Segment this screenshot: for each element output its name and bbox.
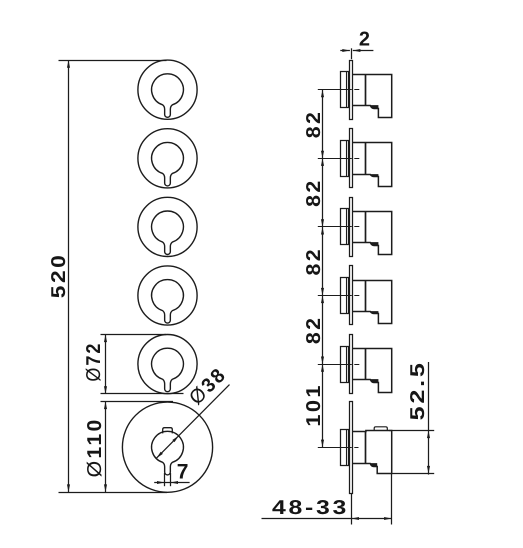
arrowhead diam38 upper-right	[172, 436, 178, 442]
valve 2 wall plate (2 mm)	[350, 129, 353, 188]
dimension line 520	[68, 60, 70, 492]
valve 1 handle profile	[353, 75, 392, 118]
arrowhead diam72 top	[104, 335, 107, 343]
knob 5 escutcheon circle (diam 72)	[138, 335, 197, 394]
valve 2 lever fillet wedge	[370, 174, 378, 176]
thermostat body inner edge	[346, 430, 348, 466]
knob 2 handle keyhole (diam 38)	[152, 142, 184, 185]
knob 3 handle keyhole (diam 38)	[152, 211, 184, 254]
extension line plate top	[351, 48, 353, 59]
arrowhead 48-33 left	[351, 517, 359, 520]
svg-text:2: 2	[359, 28, 372, 50]
arrowhead 7 left	[157, 481, 165, 484]
side view thermostat: rough-in body	[341, 430, 349, 466]
arrowhead diam38 lower-left	[156, 452, 162, 458]
extension line stem right	[170, 473, 172, 486]
valve 5 handle profile	[353, 349, 392, 393]
svg-text:82: 82	[303, 316, 325, 345]
knob 1 escutcheon circle (diam 72)	[138, 60, 197, 119]
valve 3 handle profile	[353, 212, 392, 255]
valve 2 centerline	[318, 158, 361, 160]
valve 1 body inner edge	[346, 72, 348, 108]
arrowhead down at valve center	[321, 357, 324, 365]
valve 2 cartridge edge	[365, 143, 367, 175]
svg-text:7: 7	[177, 461, 191, 484]
svg-text:82: 82	[303, 110, 325, 139]
extension line handle top	[389, 430, 434, 432]
valve 5 centerline	[318, 364, 361, 366]
arrowhead at valve 1 center	[321, 90, 324, 98]
svg-text:Ø110: Ø110	[84, 417, 106, 477]
valve 3 lever fillet wedge	[370, 242, 378, 245]
knob 5 handle keyhole (diam 38)	[152, 348, 184, 391]
arrowhead 2 left	[342, 49, 350, 52]
dimension line diam38 diagonal	[156, 385, 229, 459]
side view valve 2: rough-in body	[341, 141, 349, 177]
extension line bottom of knob 5	[101, 393, 184, 395]
arrowhead diam110 bottom	[104, 484, 107, 492]
dimension line 7	[154, 482, 189, 484]
valve 5 cartridge edge	[365, 349, 367, 380]
knob 4 handle keyhole (diam 38)	[152, 280, 184, 323]
valve 5 wall plate (2 mm)	[350, 335, 353, 394]
valve 3 cartridge edge	[365, 212, 367, 243]
valve 2 handle profile	[353, 143, 392, 187]
thermostat centerline	[318, 447, 359, 449]
svg-text:82: 82	[303, 178, 325, 207]
valve 4 lever fillet wedge	[370, 311, 378, 313]
arrowhead 52.5 bottom	[427, 466, 430, 474]
thermostat safety button tab	[163, 428, 173, 434]
valve 3 body inner edge	[346, 209, 348, 245]
valve 2 body inner edge	[346, 141, 348, 177]
dimension line 48-33	[262, 518, 392, 520]
arrowhead diam110 top	[104, 402, 107, 410]
knob 4 escutcheon circle (diam 72)	[138, 266, 197, 325]
arrowhead diam72 bottom	[104, 386, 107, 394]
valve 4 handle profile	[353, 281, 392, 324]
arrowhead down at valve center	[321, 288, 324, 296]
arrowhead 2 right	[353, 49, 361, 52]
valve 1 wall plate (2 mm)	[350, 61, 353, 120]
valve 4 body inner edge	[346, 278, 348, 314]
valve 4 centerline	[318, 295, 361, 297]
dimension line 52.5	[428, 362, 430, 475]
dimension line diam110	[105, 402, 107, 493]
knob 1 handle keyhole (diam 38)	[152, 74, 184, 117]
side view valve 1: rough-in body	[341, 72, 349, 108]
svg-text:52.5: 52.5	[407, 360, 429, 420]
dimension line 2 left	[340, 50, 350, 52]
arrowhead 7 right	[170, 481, 178, 484]
valve 1 centerline	[318, 89, 361, 91]
arrowhead 520 bottom	[67, 484, 70, 492]
arrowhead up at valve center	[321, 227, 324, 235]
thermostat wall plate (height 110)	[350, 402, 353, 494]
valve 5 lever fillet wedge	[370, 379, 378, 382]
arrowhead up at valve center	[321, 158, 324, 166]
arrowhead 48-33 right	[384, 517, 392, 520]
extension line top of thermostat circle	[101, 401, 174, 403]
thermostat escutcheon circle (diam 110)	[122, 402, 212, 492]
svg-text:Ø72: Ø72	[83, 342, 105, 382]
side view valve 3: rough-in body	[341, 209, 349, 245]
thermostat safety button tab (side)	[374, 427, 387, 430]
dimension line 82/101 column	[322, 90, 324, 448]
valve 5 body inner edge	[346, 347, 348, 383]
extension line top of knob 5	[101, 334, 167, 336]
extension line plate bottom	[351, 493, 353, 524]
arrowhead 52.5 top	[427, 431, 430, 439]
svg-text:101: 101	[303, 383, 325, 427]
valve 3 centerline	[318, 226, 361, 228]
valve 1 lever fillet wedge	[370, 105, 378, 108]
valve 4 cartridge edge	[365, 281, 367, 312]
arrowhead down at valve center	[321, 219, 324, 227]
extension line handle front	[391, 474, 393, 525]
side view valve 4: rough-in body	[341, 278, 349, 314]
extension line top of knob 1	[59, 60, 167, 62]
dimension line diam72	[105, 335, 107, 394]
arrowhead 520 top	[67, 60, 70, 68]
knob 2 escutcheon circle (diam 72)	[138, 129, 197, 188]
knob 3 escutcheon circle (diam 72)	[138, 197, 197, 256]
extension line handle bottom	[392, 473, 435, 475]
arrowhead down at valve center	[321, 151, 324, 159]
dimension line 2 right	[353, 50, 374, 52]
arrowhead up at valve center	[321, 364, 324, 372]
svg-text:520: 520	[48, 253, 70, 299]
extension line bottom of thermostat circle	[59, 492, 168, 494]
valve 3 wall plate (2 mm)	[350, 198, 353, 257]
thermostat handle keyhole (diam 38)	[152, 431, 184, 475]
thermostat handle profile	[353, 431, 392, 474]
extension line stem left	[164, 473, 166, 486]
thermostat cartridge edge	[365, 432, 367, 464]
thermostat lever fillet wedge	[370, 463, 377, 466]
side view valve 5: rough-in body	[341, 347, 349, 383]
arrowhead up at valve center	[321, 296, 324, 304]
valve 1 cartridge edge	[365, 75, 367, 106]
svg-text:48-33: 48-33	[272, 497, 349, 519]
arrowhead at thermostat center	[321, 440, 324, 448]
svg-text:82: 82	[303, 247, 325, 276]
valve 4 wall plate (2 mm)	[350, 266, 353, 325]
